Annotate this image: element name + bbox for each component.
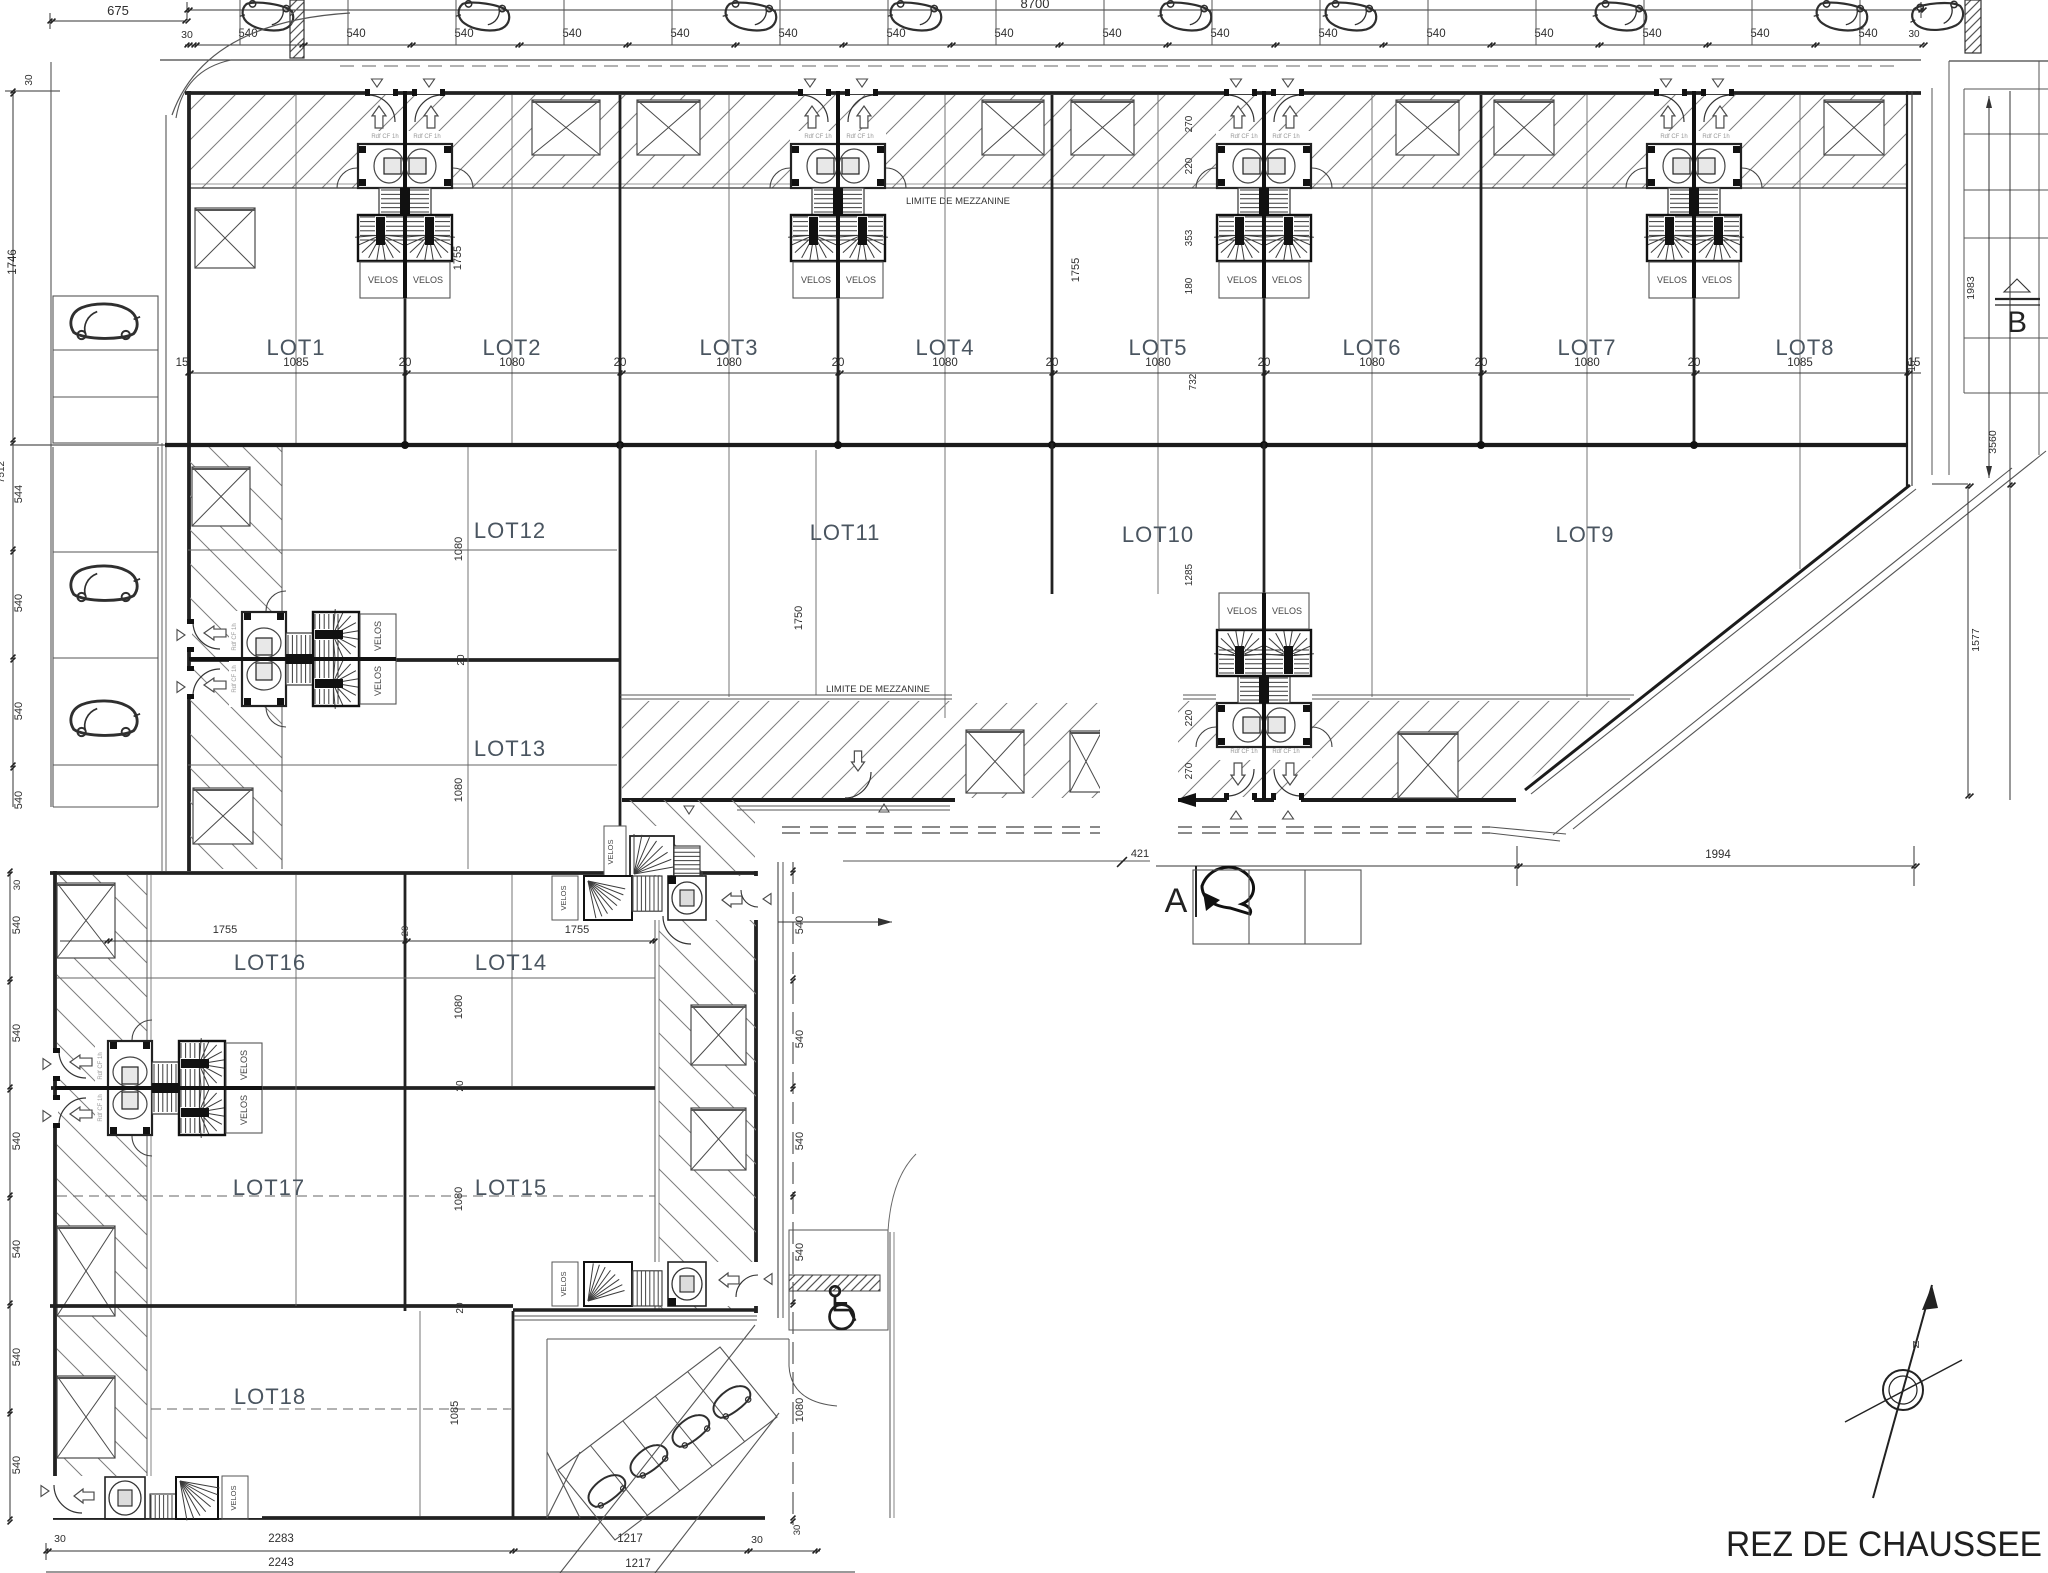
right wall + dim chain bottom block — [777, 862, 779, 1318]
court boundary — [547, 1338, 789, 1340]
dimension 1983 right — [1988, 96, 1990, 478]
svg-text:VELOS: VELOS — [559, 1271, 568, 1296]
svg-text:20: 20 — [832, 357, 845, 369]
svg-text:540: 540 — [794, 916, 806, 934]
stair/elevator cluster at x=1264 — [1196, 593, 1332, 819]
540 dimension chain top — [181, 28, 1927, 47]
svg-text:8700: 8700 — [1021, 0, 1050, 11]
svg-text:VELOS: VELOS — [1702, 275, 1732, 285]
svg-text:20: 20 — [455, 1302, 466, 1314]
svg-text:LOT17: LOT17 — [233, 1175, 305, 1200]
svg-text:540: 540 — [1858, 28, 1877, 40]
car top x=1350 — [1321, 0, 1377, 33]
svg-text:1755: 1755 — [565, 924, 589, 936]
scooter band — [558, 1347, 777, 1540]
svg-text:270: 270 — [1184, 115, 1195, 132]
svg-text:540: 540 — [778, 28, 797, 40]
svg-text:1080: 1080 — [716, 357, 742, 369]
small stair corridor — [604, 826, 674, 878]
svg-text:VELOS: VELOS — [239, 1095, 249, 1125]
storage boxes left column — [192, 467, 250, 526]
top band bottom line — [188, 187, 1907, 189]
right building edge — [1906, 91, 1908, 486]
svg-text:30: 30 — [12, 880, 23, 891]
storage boxes in top hatched band — [532, 100, 600, 155]
car top x=483 — [454, 0, 510, 33]
dimension 1577 — [1967, 486, 1969, 796]
car top x=1841 — [1812, 0, 1868, 33]
svg-text:Rdf CF 1h: Rdf CF 1h — [1230, 134, 1257, 140]
left hatch column — [190, 447, 282, 869]
lot width dimension line — [176, 357, 1921, 375]
svg-text:1746: 1746 — [7, 249, 19, 275]
svg-text:30: 30 — [792, 1525, 803, 1536]
main top wall — [185, 91, 1921, 95]
car top-right — [1909, 1, 1964, 33]
lot divider walls top row — [404, 95, 407, 445]
svg-text:1994: 1994 — [1705, 849, 1731, 861]
scooter at 692,1430 — [667, 1409, 714, 1452]
interior mezzanine lines bottom block — [57, 977, 655, 979]
svg-text:20: 20 — [1688, 357, 1701, 369]
svg-text:1080: 1080 — [794, 1398, 806, 1422]
LOT13 bottom / block top wall — [50, 871, 757, 875]
svg-text:2243: 2243 — [268, 1557, 294, 1569]
svg-text:N: N — [1912, 1340, 1919, 1351]
svg-text:VELOS: VELOS — [373, 621, 383, 651]
svg-text:REZ DE CHAUSSEE: REZ DE CHAUSSEE — [1726, 1525, 2042, 1564]
svg-text:Rdf CF 1h: Rdf CF 1h — [1702, 134, 1729, 140]
svg-text:Rdf CF 1h: Rdf CF 1h — [846, 134, 873, 140]
svg-text:7512: 7512 — [0, 460, 7, 483]
svg-text:VELOS: VELOS — [1227, 275, 1257, 285]
left dimension chain bottom block — [8, 869, 23, 1525]
left parking column — [51, 62, 158, 807]
hatched wall bar top-right — [1965, 0, 1981, 53]
svg-text:LIMITE DE MEZZANINE: LIMITE DE MEZZANINE — [906, 196, 1010, 207]
svg-text:15: 15 — [1907, 360, 1918, 372]
entrance arc — [172, 13, 350, 115]
svg-text:30: 30 — [751, 1534, 763, 1546]
svg-text:LOT9: LOT9 — [1555, 522, 1614, 547]
svg-text:VELOS: VELOS — [229, 1485, 238, 1510]
svg-text:540: 540 — [1102, 28, 1121, 40]
svg-text:LOT10: LOT10 — [1122, 522, 1194, 547]
bottom dimension lines — [44, 1533, 855, 1572]
top row bottom wall — [10, 444, 165, 446]
svg-text:540: 540 — [994, 28, 1013, 40]
section marker B — [2004, 279, 2030, 292]
middle band centre lines — [467, 447, 469, 869]
svg-text:1080: 1080 — [453, 1187, 465, 1211]
svg-text:20: 20 — [1258, 357, 1271, 369]
svg-text:VELOS: VELOS — [1272, 275, 1302, 285]
svg-text:1080: 1080 — [453, 778, 465, 802]
handicap parking — [789, 1230, 888, 1330]
property dashed line — [340, 65, 1900, 67]
svg-text:675: 675 — [107, 3, 129, 18]
stair/elevator cluster at x=405 — [337, 79, 473, 298]
X door mark — [547, 1452, 580, 1518]
svg-text:540: 540 — [11, 916, 23, 934]
parking bays under A — [1193, 870, 1361, 944]
svg-text:VELOS: VELOS — [1272, 606, 1302, 616]
svg-text:20: 20 — [456, 654, 467, 666]
width dimension bottom block — [60, 924, 657, 943]
svg-text:220: 220 — [1184, 709, 1195, 726]
svg-text:540: 540 — [1642, 28, 1661, 40]
svg-text:VELOS: VELOS — [413, 275, 443, 285]
svg-text:540: 540 — [794, 1243, 806, 1261]
svg-text:Rdf CF 1h: Rdf CF 1h — [1272, 749, 1299, 755]
svg-text:1080: 1080 — [1145, 357, 1171, 369]
LOT12|LOT13 wall — [188, 658, 620, 662]
svg-text:20: 20 — [1046, 357, 1059, 369]
dimension 8700 top — [185, 0, 1927, 18]
mezzanine band bottom wall — [622, 798, 955, 802]
right side structures — [1931, 88, 1933, 475]
svg-text:1080: 1080 — [499, 357, 525, 369]
svg-text:VELOS: VELOS — [606, 839, 615, 864]
svg-text:1577: 1577 — [1970, 628, 1982, 652]
svg-text:540: 540 — [346, 28, 365, 40]
svg-text:1755: 1755 — [213, 924, 237, 936]
scooter at 650,1460 — [625, 1439, 672, 1482]
car top x=750 — [721, 0, 777, 33]
diagonal building edge — [1525, 485, 1910, 790]
stair/elevator cluster at x=1694 — [1626, 79, 1762, 298]
svg-text:540: 540 — [13, 791, 25, 809]
stair/elevator cluster at x=1264 — [1196, 79, 1332, 298]
svg-text:270: 270 — [1184, 762, 1195, 779]
svg-text:VELOS: VELOS — [801, 275, 831, 285]
car top x=267 — [238, 0, 294, 33]
svg-text:421: 421 — [1131, 848, 1149, 860]
svg-text:1080: 1080 — [453, 995, 465, 1019]
svg-text:LOT13: LOT13 — [474, 736, 546, 761]
svg-text:540: 540 — [11, 1024, 23, 1042]
svg-text:VELOS: VELOS — [846, 275, 876, 285]
svg-text:Rdf CF 1h: Rdf CF 1h — [1272, 134, 1299, 140]
svg-text:LIMITE DE MEZZANINE: LIMITE DE MEZZANINE — [826, 684, 930, 695]
interior walls bottom block — [404, 873, 407, 1311]
svg-text:LOT18: LOT18 — [234, 1384, 306, 1409]
svg-text:3560: 3560 — [1987, 430, 1999, 454]
svg-text:544: 544 — [13, 485, 25, 503]
svg-text:1755: 1755 — [452, 246, 464, 270]
svg-text:Rdf CF 1h: Rdf CF 1h — [232, 623, 238, 650]
right hatch band bottom block — [659, 875, 756, 1311]
svg-text:1085: 1085 — [1787, 357, 1813, 369]
site boundary line — [160, 59, 1921, 61]
car top x=1185 — [1156, 0, 1212, 33]
stair cluster LOT16/17 — [43, 1020, 262, 1156]
door mezzanine wall — [845, 772, 871, 798]
svg-text:VELOS: VELOS — [239, 1050, 249, 1080]
svg-text:540: 540 — [794, 1132, 806, 1150]
svg-text:Rdf CF 1h: Rdf CF 1h — [413, 134, 440, 140]
LOT12/13 mezzanine lines — [188, 549, 617, 551]
car top x=1620 — [1591, 0, 1647, 33]
svg-text:1755: 1755 — [1070, 258, 1082, 282]
west site line — [165, 115, 167, 443]
mezzanine band middle — [620, 694, 1634, 696]
stair/elevator cluster at x=189 — [177, 591, 396, 727]
storage boxes mezzanine band — [966, 730, 1024, 793]
svg-text:VELOS: VELOS — [1657, 275, 1687, 285]
svg-text:Rdf CF 1h: Rdf CF 1h — [232, 665, 238, 692]
svg-text:540: 540 — [886, 28, 905, 40]
car left 3 — [71, 701, 140, 736]
lot centre lines top row — [295, 95, 297, 443]
svg-text:220: 220 — [1184, 157, 1195, 174]
svg-text:Rdf CF 1h: Rdf CF 1h — [1660, 134, 1687, 140]
hatched mezzanine band top — [188, 95, 1907, 188]
dimension 3560 — [2009, 91, 2011, 800]
middle band walls — [619, 443, 622, 886]
car left 2 — [71, 566, 140, 601]
stair cluster LOT18 — [52, 1476, 262, 1518]
scooter at 608,1490 — [583, 1469, 630, 1512]
stair cluster LOT15 — [552, 1262, 758, 1306]
storage box LOT1 — [195, 208, 255, 268]
svg-text:Rdf CF 1h: Rdf CF 1h — [98, 1052, 104, 1079]
svg-text:540: 540 — [1210, 28, 1229, 40]
svg-text:1750: 1750 — [793, 606, 805, 630]
svg-text:A: A — [1165, 882, 1188, 920]
svg-text:LOT16: LOT16 — [234, 950, 306, 975]
svg-text:540: 540 — [11, 1240, 23, 1258]
svg-text:1217: 1217 — [625, 1558, 651, 1570]
svg-text:LOT11: LOT11 — [810, 520, 881, 545]
svg-text:540: 540 — [11, 1456, 23, 1474]
svg-text:540: 540 — [1318, 28, 1337, 40]
svg-text:Rdf CF 1h: Rdf CF 1h — [804, 134, 831, 140]
svg-text:LOT14: LOT14 — [475, 950, 547, 975]
svg-text:VELOS: VELOS — [373, 666, 383, 696]
stair/elevator cluster at x=838 — [770, 79, 906, 298]
svg-text:1285: 1285 — [1184, 563, 1195, 586]
compass — [1845, 1285, 1962, 1498]
svg-text:540: 540 — [13, 594, 25, 612]
road diagonals — [1573, 451, 2046, 829]
svg-text:15: 15 — [176, 357, 189, 369]
svg-text:20: 20 — [1475, 357, 1488, 369]
svg-text:732: 732 — [1188, 373, 1199, 390]
svg-text:1085: 1085 — [283, 357, 309, 369]
svg-text:180: 180 — [1184, 277, 1195, 294]
svg-text:LOT15: LOT15 — [475, 1175, 547, 1200]
drive lines — [737, 805, 950, 807]
dimension 675 top-left — [48, 3, 191, 29]
svg-text:VELOS: VELOS — [559, 885, 568, 910]
svg-text:30: 30 — [24, 74, 35, 86]
arrow head on wall — [1174, 793, 1196, 807]
svg-text:Rdf CF 1h: Rdf CF 1h — [98, 1094, 104, 1121]
svg-text:540: 540 — [11, 1132, 23, 1150]
stair/elevator cluster at x=55 — [43, 1020, 262, 1156]
svg-text:1080: 1080 — [932, 357, 958, 369]
left main wall — [187, 91, 191, 871]
svg-text:VELOS: VELOS — [368, 275, 398, 285]
svg-text:20: 20 — [614, 357, 627, 369]
svg-text:1080: 1080 — [453, 537, 465, 561]
bottom block outer walls — [53, 871, 57, 1519]
svg-text:1983: 1983 — [1965, 276, 1977, 300]
car left 1 — [71, 304, 140, 339]
svg-text:2283: 2283 — [268, 1533, 294, 1545]
svg-text:540: 540 — [670, 28, 689, 40]
svg-text:Rdf CF 1h: Rdf CF 1h — [1230, 749, 1257, 755]
parking divider stubs above top wall — [240, 0, 1860, 45]
stair cluster LOT14 — [552, 876, 758, 920]
svg-text:540: 540 — [1534, 28, 1553, 40]
stair cluster LOT12/13 — [177, 591, 396, 727]
svg-text:540: 540 — [562, 28, 581, 40]
svg-text:540: 540 — [454, 28, 473, 40]
svg-text:540: 540 — [11, 1348, 23, 1366]
svg-text:20: 20 — [399, 357, 412, 369]
left dimension chain 1746 — [0, 74, 60, 809]
svg-text:20: 20 — [455, 1080, 466, 1092]
car top x=915 — [886, 0, 942, 33]
svg-text:540: 540 — [1750, 28, 1769, 40]
svg-text:30: 30 — [54, 1533, 66, 1545]
svg-text:540: 540 — [794, 1030, 806, 1048]
svg-text:540: 540 — [1426, 28, 1445, 40]
white blob — [952, 594, 1183, 703]
svg-text:20: 20 — [400, 926, 411, 937]
svg-text:30: 30 — [1908, 29, 1920, 40]
svg-text:1217: 1217 — [617, 1533, 643, 1545]
svg-text:353: 353 — [1184, 229, 1195, 246]
svg-text:1080: 1080 — [1359, 357, 1385, 369]
svg-text:Rdf CF 1h: Rdf CF 1h — [371, 134, 398, 140]
court diagonals — [560, 1325, 755, 1573]
svg-text:VELOS: VELOS — [1227, 606, 1257, 616]
svg-text:1080: 1080 — [1574, 357, 1600, 369]
left hatch column bottom block — [57, 875, 147, 1516]
centre lines bottom block — [295, 875, 297, 1306]
hatched wall bar top-left — [290, 0, 304, 58]
scooter at 733,1401 — [708, 1380, 755, 1423]
svg-text:540: 540 — [13, 702, 25, 720]
corridor hatch — [622, 800, 755, 871]
svg-text:30: 30 — [181, 29, 193, 41]
svg-text:1085: 1085 — [449, 1401, 461, 1425]
svg-text:LOT12: LOT12 — [474, 518, 546, 543]
dimension 1994 — [1117, 846, 1919, 886]
